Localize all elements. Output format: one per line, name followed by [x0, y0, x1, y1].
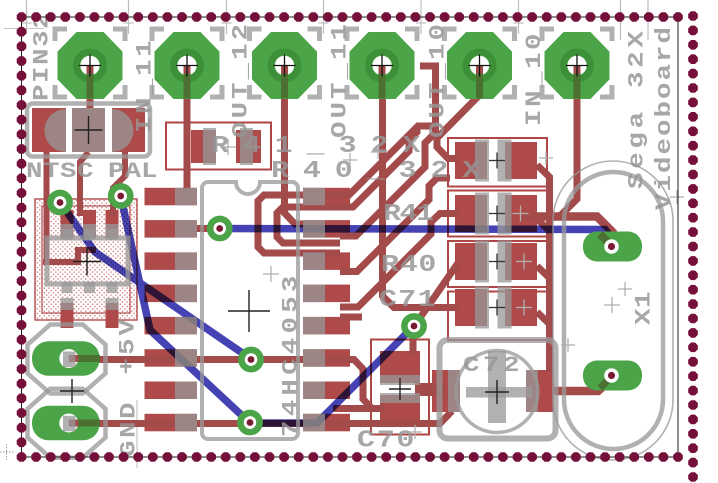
bottom copper layer (blue wires): [60, 196, 612, 423]
connector pad IN_11: [155, 32, 220, 99]
hatched component pad T2: [83, 210, 96, 238]
IC U1 pad R6: [303, 349, 350, 367]
vertical dotted wire at right: [688, 11, 698, 21]
blue wire via3 to X1 top: [220, 229, 612, 239]
connector pad OUT_10: [447, 32, 512, 99]
silk U1 pad bars: [175, 317, 197, 335]
IC U1 pad L3: [145, 252, 198, 270]
silk C72 plus vertical: [488, 351, 506, 423]
silk SJ1 blob left (opens left): [45, 109, 67, 152]
silk U1 pad bars: [175, 349, 197, 367]
component origin crosses: [60, 116, 684, 439]
cross power pads: [60, 390, 84, 392]
solder jumper SJ1 pad 1: [32, 108, 66, 152]
svg-text:R40_32X: R40_32X: [271, 158, 494, 185]
cross SJ1: [75, 129, 103, 131]
staircase wire N3 from U1-R3: [340, 178, 450, 272]
wire pad5 to R40_32X left: [437, 66, 480, 159]
silk resistor bank bars: [475, 193, 489, 235]
wire SJ1 pad1 down: [44, 152, 50, 262]
svg-text:OUT_10: OUT_10: [426, 21, 451, 138]
svg-text:NTSC: NTSC: [26, 159, 94, 184]
wire inside hatched comp: [43, 250, 96, 262]
wire pad4 to C71 left: [383, 66, 459, 308]
wire pad1 to SJ1: [87, 66, 94, 114]
silk power pad octagon outline: [28, 325, 106, 394]
silk U1 pad bars: [175, 220, 197, 238]
solder jumper SJ1 pad 2: [72, 108, 105, 152]
silk C72 pad bars: [448, 370, 460, 412]
cross U1: [228, 310, 270, 312]
svg-text:C72: C72: [463, 353, 523, 378]
silk U1 pad bars: [175, 414, 197, 432]
IC U1 pad R5: [303, 317, 350, 335]
cross C70: [389, 388, 411, 390]
component R41 outline box: [448, 191, 547, 237]
silk hatched comp body: [47, 238, 128, 284]
R40 pad left: [455, 243, 487, 280]
wire C70 to C72 bridge: [415, 383, 445, 396]
staircase wire N4 from U1-R4 to R41 left: [340, 214, 458, 308]
svg-text:74HC4053: 74HC4053: [279, 271, 304, 437]
blue wire via5 to via6: [250, 326, 414, 423]
blue wire via2 to via5: [121, 196, 250, 423]
svg-text:R40: R40: [381, 252, 437, 279]
svg-text:Sega 32X: Sega 32X: [625, 27, 650, 189]
silk R41_32X bars: [203, 128, 216, 165]
crystal X1 pad: [583, 361, 642, 391]
wire C72 to X1 bottom: [552, 378, 613, 392]
svg-text:C71: C71: [379, 287, 437, 314]
silk resistor bank bars: [475, 287, 489, 329]
cross hatched comp: [73, 261, 101, 263]
R40_32X pad right: [505, 142, 537, 179]
via V3: [210, 219, 229, 238]
R40_32X pad left: [455, 142, 487, 179]
wire pad6 down: [558, 66, 577, 218]
connector pad IN_10: [545, 32, 610, 99]
wire +5V rail: [78, 360, 385, 409]
svg-text:R41: R41: [383, 201, 434, 228]
silk corner brackets pad 284.5: [250, 29, 262, 41]
via V5: [240, 413, 259, 432]
hatched component pad B1: [61, 303, 74, 328]
svg-text:GND: GND: [117, 400, 142, 457]
silk C70 bars: [380, 375, 420, 385]
hatched component pad B2: [106, 303, 119, 328]
via V2: [111, 186, 130, 205]
IC U1 pad L7: [145, 382, 198, 400]
silk corner brackets pad 187: [152, 29, 164, 41]
nested wire L2 + staircase: [277, 125, 417, 243]
svg-text:IN_11: IN_11: [133, 38, 158, 133]
svg-text:+5V: +5V: [116, 316, 141, 374]
silk corner brackets pad 577: [542, 29, 554, 41]
silk C72 circle: [456, 351, 538, 433]
IC U1 pad L8: [145, 414, 198, 432]
stub +5V horizontal low: [333, 405, 372, 412]
R41 right jog: [537, 219, 550, 231]
crystal X1 pad: [583, 232, 642, 262]
resistor R41_32X outline: [166, 123, 271, 170]
R40 right jog: [537, 266, 550, 278]
wire pad2 to U1 pin L1: [184, 66, 191, 198]
R41 pad left: [455, 195, 487, 232]
hatched component pad T1: [61, 210, 74, 238]
hatched component pad T3: [106, 210, 119, 238]
blue wire via1 to via4: [60, 202, 251, 359]
IC U1 pad R7: [303, 382, 350, 400]
via V1: [50, 193, 69, 212]
staircase wire N2 from U1-R2: [340, 66, 436, 236]
wire via5 right: [250, 420, 338, 427]
silk U1 pad bars: [175, 252, 197, 270]
silk corner brackets pad 90: [55, 29, 67, 41]
svg-text:PAL: PAL: [108, 159, 157, 184]
capacitor C72 pad right: [526, 370, 554, 412]
silk power pad octagon outline: [28, 389, 106, 458]
svg-text:X1: X1: [632, 291, 657, 325]
IC U1 pad L1: [145, 188, 198, 206]
IC U1 pad R1: [303, 188, 350, 206]
silk U1 outline: [202, 182, 298, 439]
wire SJ1 pad2 down: [80, 152, 89, 216]
capacitor C70 pad top: [380, 351, 420, 383]
capacitor C70 pad bottom: [380, 395, 420, 427]
silk SJ1 blob middle: [72, 108, 105, 152]
C71 pad right: [505, 289, 537, 326]
connector pad OUT_11: [350, 32, 415, 99]
silk SJ1 outline: [27, 104, 150, 157]
power pad +5V: [32, 341, 100, 376]
svg-text:C70: C70: [357, 427, 416, 454]
IC U1 pad L5: [145, 317, 198, 335]
stub U1 R5 right: [340, 314, 362, 321]
power pad GND: [32, 406, 100, 441]
IC U1 pad L4: [145, 285, 198, 303]
resistor R41_32X pad 2: [236, 130, 261, 163]
component R40_32X outline box: [448, 138, 547, 187]
wire via6 to R40 left pad: [415, 263, 458, 325]
silk squares in power pad holes: [63, 352, 76, 368]
IC U1 pad R8: [303, 414, 350, 432]
silk corner brackets pad 479.5: [445, 29, 457, 41]
svg-text:Videoboard: Videoboard: [652, 25, 677, 210]
silk resistor bank bars: [475, 140, 489, 182]
capacitor C70 outline: [371, 340, 429, 435]
via V4: [241, 350, 260, 369]
IC U1 pad L2: [145, 220, 198, 238]
silk U1 pad bars: [175, 285, 197, 303]
component R40 outline box: [448, 241, 547, 287]
R40 pad right: [505, 243, 537, 280]
silk corner brackets pad 382: [347, 29, 359, 41]
R41 pad right: [505, 195, 537, 232]
C71 pad left: [455, 289, 487, 326]
wire GND rail: [78, 411, 452, 424]
resistor bank right chain: [537, 165, 550, 372]
component C71 outline box: [448, 292, 547, 341]
nested wire L1 + staircase to top: [258, 126, 432, 253]
svg-text:IN_10: IN_10: [522, 31, 547, 126]
connector pad OUT_12: [252, 32, 317, 99]
svg-text:OUT_12: OUT_12: [229, 21, 254, 138]
silk U1 pad bars: [175, 382, 197, 400]
IC U1 pad R4: [303, 285, 350, 303]
silk C72 plus horizontal: [466, 387, 532, 398]
via V6: [404, 316, 423, 335]
origin dotted cross: [0, 451, 15, 453]
C71 right jog: [537, 312, 550, 324]
svg-text:PIN32: PIN32: [30, 11, 55, 101]
connector pad PIN32: [58, 32, 123, 99]
IC U1 pad R3: [303, 252, 350, 270]
silk resistor bank bars: [475, 241, 489, 283]
capacitor C72 pad left: [432, 370, 460, 412]
svg-text:R41_32X: R41_32X: [211, 133, 434, 160]
resistor R41_32X pad 1: [191, 130, 216, 163]
top copper pads: [32, 108, 554, 435]
cross C72: [485, 391, 509, 393]
solder jumper SJ1 pad 3: [112, 108, 145, 152]
wire X1 top horizontal: [522, 217, 613, 245]
wire SJ1 pad3 down: [113, 152, 125, 216]
wire via6 to C70 top pad: [410, 327, 417, 354]
silk C72 outline: [440, 340, 556, 439]
svg-text:OUT_11: OUT_11: [328, 21, 353, 138]
silk U1 pad bars: [175, 188, 197, 206]
wire U1 L2 to via3: [185, 225, 220, 232]
silk SJ1 blob right (opens right): [112, 109, 134, 152]
silk X1 outer outline: [553, 161, 673, 460]
wire pad3 into U1: [285, 66, 313, 224]
IC U1 pad R2: [303, 220, 350, 238]
IC U1 pad L6: [145, 349, 198, 367]
red trace wires: [43, 66, 613, 424]
silk X1 inner outline: [564, 172, 663, 449]
